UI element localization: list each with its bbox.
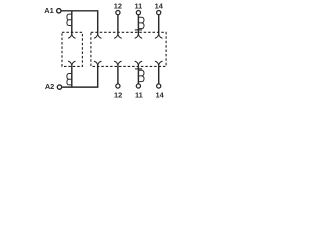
svg-text:11: 11 <box>134 2 142 11</box>
svg-text:A1: A1 <box>44 6 53 15</box>
svg-text:12: 12 <box>114 90 122 99</box>
svg-text:11: 11 <box>135 90 143 99</box>
svg-text:A2: A2 <box>45 82 54 91</box>
svg-text:14: 14 <box>155 90 164 99</box>
svg-text:14: 14 <box>155 2 164 11</box>
svg-text:12: 12 <box>114 2 122 11</box>
